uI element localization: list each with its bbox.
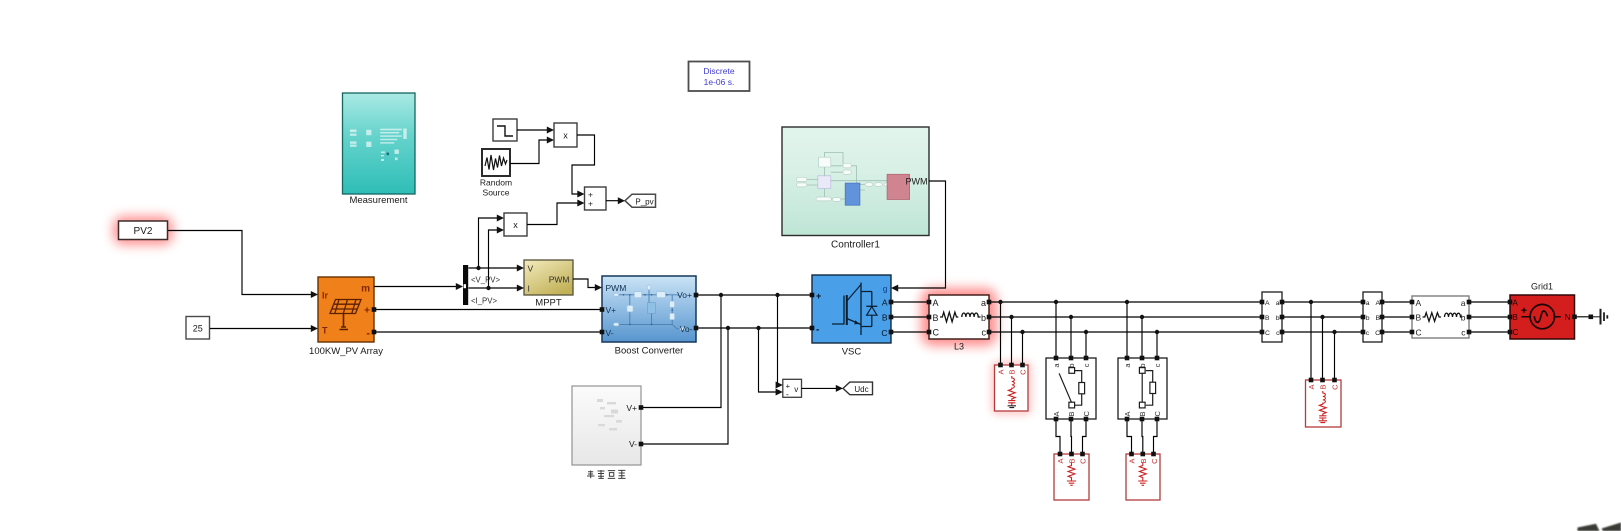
wire bus phase c L3 to VI1 bbox=[989, 331, 1262, 333]
wire 25 to T bbox=[210, 328, 311, 330]
three-phase RL branch L3 (highlighted) bbox=[921, 288, 997, 352]
svg-text:B: B bbox=[1139, 459, 1148, 464]
product block (bottom) bbox=[504, 213, 527, 236]
svg-text:+: + bbox=[364, 306, 370, 317]
svg-text:c: c bbox=[1153, 363, 1162, 367]
svg-text:A: A bbox=[1056, 459, 1065, 464]
goto tag Udc bbox=[843, 382, 873, 395]
wire breaker2 B to load3 bbox=[1141, 419, 1144, 454]
wire drop b to load1 bbox=[1011, 317, 1013, 365]
random source block bbox=[480, 149, 512, 198]
wire RL branch to Grid1 (a b c) bbox=[1469, 302, 1510, 332]
svg-text:100KW_PV Array: 100KW_PV Array bbox=[309, 346, 383, 357]
constant 25 bbox=[186, 317, 210, 340]
wire bus phase b L3 to VI1 bbox=[989, 316, 1262, 318]
svg-text:A: A bbox=[882, 298, 888, 308]
subsystem VSC bbox=[812, 275, 891, 358]
svg-text:C: C bbox=[1079, 458, 1088, 464]
svg-text:-: - bbox=[786, 389, 789, 399]
wire drop a to load1 bbox=[1000, 302, 1002, 365]
svg-text:C: C bbox=[1331, 384, 1340, 390]
svg-text:B: B bbox=[1138, 411, 1147, 416]
svg-text:Controller1: Controller1 bbox=[831, 240, 880, 251]
wire random source to product1 bbox=[510, 140, 547, 164]
svg-text:b: b bbox=[1366, 315, 1370, 322]
wire PV - to Boost V- bbox=[374, 331, 602, 333]
svg-text:A: A bbox=[1307, 385, 1316, 390]
wire bus phase a VI1 to VI2 bbox=[1282, 301, 1363, 303]
subsystem Measurement bbox=[343, 93, 416, 206]
svg-text:C: C bbox=[1153, 411, 1162, 417]
wire storage V- to DC bus bbox=[641, 328, 728, 444]
svg-text:a: a bbox=[1366, 300, 1370, 307]
wire PV + to Boost V+ bbox=[374, 309, 602, 311]
wire branch I_PV to product2 in2 bbox=[489, 230, 498, 288]
wire storage V+ to DC bus bbox=[641, 295, 721, 408]
svg-text:c: c bbox=[1082, 363, 1091, 367]
svg-text:b: b bbox=[1276, 315, 1280, 322]
wire drop c to load1 bbox=[1022, 332, 1024, 365]
svg-text:V+: V+ bbox=[626, 403, 637, 413]
corner watermark fragment bbox=[1578, 523, 1621, 531]
svg-text:C: C bbox=[1416, 328, 1422, 338]
svg-text:C: C bbox=[933, 328, 940, 338]
svg-text:a: a bbox=[981, 298, 986, 308]
voltage measurement block bbox=[783, 379, 802, 399]
svg-text:B: B bbox=[1008, 370, 1017, 375]
svg-text:T: T bbox=[322, 326, 328, 336]
svg-text:A: A bbox=[997, 370, 1006, 375]
svg-text:Udc: Udc bbox=[854, 385, 868, 394]
svg-text:Boost Converter: Boost Converter bbox=[615, 346, 684, 357]
wire MPPT PWM to Boost PWM bbox=[573, 279, 595, 288]
svg-text:C: C bbox=[1375, 330, 1380, 337]
wire bus V_PV to MPPT V bbox=[469, 267, 518, 269]
svg-text:C: C bbox=[881, 328, 887, 338]
svg-text:Source: Source bbox=[483, 188, 510, 198]
wire DC+ to voltmeter + bbox=[776, 295, 778, 385]
sum block bbox=[585, 187, 607, 210]
svg-text:x: x bbox=[563, 131, 568, 141]
svg-text:<V_PV>: <V_PV> bbox=[471, 276, 500, 285]
goto tag P_pv bbox=[625, 194, 656, 207]
wire bus phase b VI1 to VI2 bbox=[1282, 316, 1363, 318]
three-phase breaker 2 (closed) bbox=[1118, 358, 1167, 419]
wire bus phase a L3 to VI1 bbox=[989, 301, 1262, 303]
three-phase load block 2 (below breaker 1) bbox=[1054, 454, 1089, 500]
three-phase breaker 1 (open) bbox=[1046, 358, 1096, 419]
svg-text:B: B bbox=[1067, 411, 1076, 416]
svg-text:A: A bbox=[933, 298, 939, 308]
svg-text:B: B bbox=[933, 313, 939, 323]
step source block bbox=[493, 119, 517, 141]
svg-text:A: A bbox=[1123, 411, 1132, 416]
svg-text:A: A bbox=[1128, 459, 1137, 464]
arrowheads bbox=[311, 127, 898, 396]
wire product1 to sum bbox=[572, 135, 595, 194]
svg-text:L3: L3 bbox=[954, 342, 964, 352]
wire Boost Vo+ to VSC + bbox=[696, 294, 812, 296]
junction dots bbox=[476, 266, 1336, 334]
wire drop b to load4 bbox=[1322, 317, 1324, 380]
wire step to product1 bbox=[517, 129, 547, 131]
wire product2 to sum bbox=[527, 203, 578, 225]
wire drop c to load4 bbox=[1334, 332, 1336, 380]
svg-text:-: - bbox=[366, 328, 370, 340]
svg-text:V+: V+ bbox=[606, 305, 617, 315]
svg-text:-: - bbox=[816, 325, 819, 336]
wire drop b to breaker1 bbox=[1070, 317, 1072, 358]
svg-text:x: x bbox=[513, 220, 518, 230]
svg-text:C: C bbox=[1513, 328, 1519, 337]
svg-text:c: c bbox=[1276, 330, 1280, 337]
wire Boost Vo- to VSC - bbox=[696, 327, 812, 329]
bus selector bbox=[463, 265, 468, 305]
wire branch V_PV to product2 in1 bbox=[479, 218, 498, 268]
three-phase load block 4 (below bus, right) bbox=[1306, 380, 1342, 427]
wire breaker2 C to load3 bbox=[1154, 419, 1158, 454]
svg-text:V-: V- bbox=[606, 328, 614, 338]
svg-text:B: B bbox=[1319, 385, 1328, 390]
svg-text:A: A bbox=[1265, 300, 1270, 307]
svg-text:a: a bbox=[1461, 298, 1466, 308]
wire bus I_PV to MPPT I bbox=[469, 287, 518, 289]
svg-text:Measurement: Measurement bbox=[349, 195, 407, 206]
svg-text:g: g bbox=[883, 284, 888, 294]
svg-text:Grid1: Grid1 bbox=[1531, 282, 1553, 292]
svg-text:A: A bbox=[1052, 411, 1061, 416]
wire VI2 to RL branch (a b c) bbox=[1382, 302, 1412, 332]
svg-text:Random: Random bbox=[480, 178, 512, 188]
PV array block 100KW_PV Array bbox=[309, 277, 383, 357]
svg-text:V-: V- bbox=[629, 439, 637, 449]
wire drop a to breaker1 bbox=[1055, 302, 1057, 358]
wire breaker2 A to load3 bbox=[1127, 419, 1132, 454]
svg-text:MPPT: MPPT bbox=[535, 298, 562, 309]
wire breaker1 C to load2 bbox=[1083, 419, 1087, 454]
wire bus phase c VI1 to VI2 bbox=[1282, 331, 1363, 333]
svg-text:A: A bbox=[1416, 298, 1422, 308]
svg-text:B: B bbox=[1513, 313, 1518, 322]
wire drop b to breaker2 bbox=[1141, 317, 1143, 358]
wire breaker1 A to load2 bbox=[1056, 419, 1060, 454]
wire Controller1 PWM to VSC g bbox=[898, 181, 946, 288]
svg-text:C: C bbox=[1019, 369, 1028, 375]
svg-text:B: B bbox=[1265, 315, 1270, 322]
svg-text:B: B bbox=[1416, 313, 1422, 323]
wire drop a to load4 bbox=[1310, 302, 1312, 380]
wire PV2 to Ir bbox=[168, 231, 311, 295]
svg-text:m: m bbox=[361, 284, 370, 295]
source block Grid1 bbox=[1510, 282, 1575, 340]
wire VSC C to L3 C bbox=[891, 331, 929, 333]
svg-text:I: I bbox=[528, 284, 530, 294]
svg-text:C: C bbox=[1265, 330, 1270, 337]
svg-text:a: a bbox=[1276, 300, 1280, 307]
svg-text:P_pv: P_pv bbox=[635, 197, 653, 206]
wire DC- to voltmeter - bbox=[759, 328, 777, 392]
wire drop c to breaker1 bbox=[1085, 332, 1087, 358]
subsystem Controller1 bbox=[782, 127, 929, 251]
subsystem energy-storage (储能模块) bbox=[572, 386, 641, 478]
svg-text:VSC: VSC bbox=[842, 347, 862, 358]
svg-text:+: + bbox=[588, 199, 593, 209]
svg-text:c: c bbox=[1366, 330, 1370, 337]
subsystem Boost Converter bbox=[602, 276, 696, 357]
wire m to bus selector bbox=[374, 286, 456, 288]
three-phase RL branch (grid side) bbox=[1412, 296, 1469, 338]
svg-text:PWM: PWM bbox=[606, 283, 627, 293]
svg-text:C: C bbox=[1150, 458, 1159, 464]
svg-text:b: b bbox=[981, 313, 986, 323]
subsystem MPPT bbox=[524, 260, 573, 309]
svg-text:1e-06 s.: 1e-06 s. bbox=[704, 77, 735, 87]
wire VSC A to L3 A bbox=[891, 301, 929, 303]
ground symbol bbox=[1593, 309, 1607, 325]
svg-text:B: B bbox=[882, 313, 888, 323]
svg-text:C: C bbox=[1082, 411, 1091, 417]
wire Grid1 N to ground bbox=[1575, 316, 1594, 318]
svg-text:25: 25 bbox=[193, 323, 203, 333]
powergui block Discrete 1e-06 s. bbox=[689, 62, 750, 92]
wire drop a to breaker2 bbox=[1126, 302, 1128, 358]
port squares bbox=[372, 293, 1593, 457]
wire drop c to breaker2 bbox=[1156, 332, 1158, 358]
three-phase VI measurement 2 bbox=[1363, 292, 1382, 342]
svg-text:PWM: PWM bbox=[906, 176, 928, 186]
svg-text:V: V bbox=[528, 264, 534, 274]
svg-text:<I_PV>: <I_PV> bbox=[471, 297, 497, 306]
three-phase load block (highlighted, below L3) bbox=[990, 360, 1033, 416]
svg-text:Vo-: Vo- bbox=[680, 324, 693, 334]
goto tag PV2 (highlighted) bbox=[113, 216, 173, 245]
svg-text:A: A bbox=[1513, 299, 1519, 308]
wire VSC B to L3 B bbox=[891, 316, 929, 318]
wire voltmeter to Udc bbox=[802, 387, 837, 389]
svg-text:N: N bbox=[1565, 313, 1571, 322]
svg-text:PV2: PV2 bbox=[134, 226, 153, 237]
product block (top) bbox=[554, 123, 577, 147]
svg-text:+: + bbox=[816, 291, 821, 301]
three-phase load block 3 (below breaker 2) bbox=[1126, 454, 1160, 500]
three-phase VI measurement 1 bbox=[1262, 292, 1282, 342]
svg-text:Ir: Ir bbox=[322, 291, 329, 301]
wire breaker1 B to load2 bbox=[1070, 419, 1073, 454]
svg-text:c: c bbox=[982, 328, 987, 338]
svg-text:v: v bbox=[794, 385, 798, 394]
svg-text:Vo+: Vo+ bbox=[677, 290, 692, 300]
svg-text:PWM: PWM bbox=[549, 275, 570, 285]
wire sum to P_pv bbox=[606, 200, 618, 202]
svg-text:Discrete: Discrete bbox=[703, 66, 734, 76]
